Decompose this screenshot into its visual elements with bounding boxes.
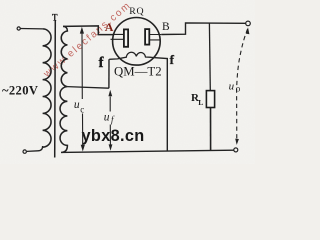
svg-text:ybx8.cn: ybx8.cn <box>82 127 145 145</box>
electrode plate A <box>111 29 129 46</box>
svg-text:u: u <box>104 111 110 123</box>
svg-text:QM—T2: QM—T2 <box>114 65 162 79</box>
svg-text:f: f <box>99 55 104 71</box>
svg-text:T: T <box>52 12 58 22</box>
terminal: AC input bottom <box>23 150 26 153</box>
gas sensor RQ envelope <box>113 18 161 66</box>
wire: secondary top to electrode A <box>63 26 114 35</box>
svg-text:f: f <box>170 52 175 67</box>
label RL <box>191 92 203 107</box>
svg-text:~220V: ~220V <box>2 83 38 97</box>
wire: secondary tap to heater <box>67 87 109 89</box>
terminal: AC input top <box>17 27 20 30</box>
transformer T primary winding <box>43 29 51 147</box>
terminal: output bottom <box>234 148 238 152</box>
transformer T secondary winding <box>60 26 67 152</box>
svg-text:c: c <box>80 104 84 114</box>
svg-text:A: A <box>105 20 114 34</box>
transformer T core <box>54 20 57 158</box>
wire: heater right lead f to bottom rail <box>152 57 168 151</box>
terminal: output top <box>246 21 251 26</box>
heater filament f-f <box>109 52 151 59</box>
voltage u_o dashed measure line <box>229 27 250 144</box>
svg-text:o: o <box>236 83 241 93</box>
wire: AC line bottom lead <box>27 146 43 151</box>
svg-text:u: u <box>74 99 80 111</box>
voltage arrow u_f <box>104 90 115 151</box>
wire: electrode B to output terminal <box>161 23 245 35</box>
resistor RL <box>206 23 214 150</box>
wire: heater left lead f to tap <box>108 59 110 88</box>
svg-text:u: u <box>229 81 235 93</box>
electrode plate B <box>145 29 161 44</box>
wire: bottom rail <box>61 150 234 152</box>
svg-text:B: B <box>162 21 170 33</box>
svg-text:RQ: RQ <box>129 6 144 17</box>
voltage arrow u_c <box>74 27 85 152</box>
svg-text:L: L <box>198 98 203 107</box>
wire: AC line top lead <box>20 28 42 30</box>
